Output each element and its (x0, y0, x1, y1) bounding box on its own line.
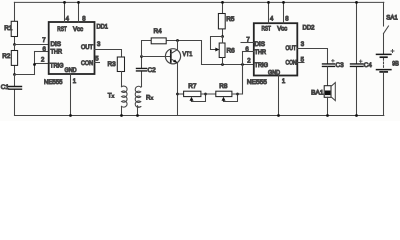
resistor R2 (11, 45, 17, 75)
svg-text:R1: R1 (4, 25, 13, 32)
svg-text:OUT: OUT (81, 45, 93, 51)
wire: top +9V rail (14, 1, 383, 3)
node: winding2 ground (136, 114, 139, 117)
svg-text:R6: R6 (227, 48, 236, 55)
wire: THR-TRIG tie vertical (34, 52, 36, 75)
potentiometer R6 (211, 37, 226, 65)
wire: DD1 pin 1 GND to rail (70, 74, 72, 116)
wire: to DD1 pin 7 DIS (15, 44, 49, 46)
wire: DD1 pin 4 RST to rail (64, 2, 66, 22)
node: R6 bottom junction (221, 63, 224, 66)
svg-text:DD2: DD2 (303, 25, 316, 31)
svg-text:R4: R4 (154, 28, 163, 35)
capacitor C2 (137, 57, 147, 87)
node: DD2 pin1 ground junction (277, 114, 280, 117)
wire: DD1 pin 2 TRIG (35, 63, 49, 65)
node: R2 bottom / C1 junction (13, 73, 16, 76)
resistor R5 (218, 2, 225, 36)
node: pin8 rail junction (77, 1, 80, 4)
svg-text:OUT: OUT (286, 46, 297, 52)
svg-text:RST: RST (57, 27, 67, 33)
svg-text:VT1: VT1 (183, 51, 193, 58)
svg-text:THR: THR (255, 50, 267, 56)
battery GB 9V (377, 34, 395, 116)
transformer T winding 1 (Tx) (122, 86, 128, 115)
potentiometer R8 (216, 91, 238, 101)
node: DD2 pin4 rail junction (267, 1, 270, 4)
node: pin1 ground junction (69, 114, 72, 117)
capacitor C1 (9, 75, 22, 116)
timer IC DD2 NE555 (254, 23, 297, 75)
node: C4 ground junction (355, 114, 358, 117)
svg-text:CON: CON (81, 61, 93, 67)
svg-text:DIS: DIS (255, 42, 266, 48)
resistor R1 (11, 2, 17, 44)
svg-text:R5: R5 (226, 16, 235, 23)
wire: DD1 pin 6 THR (35, 51, 49, 53)
svg-text:TRIG: TRIG (50, 64, 64, 70)
op-amp U1 / timer IC DD1 NE555 (49, 22, 95, 74)
svg-text:9B: 9B (392, 62, 399, 68)
capacitor C4 (351, 2, 364, 115)
svg-text:NE555: NE555 (44, 79, 63, 86)
potentiometer R7 (184, 91, 206, 101)
node: emitter/R7 junction (176, 93, 179, 96)
svg-text:C4: C4 (364, 62, 373, 69)
svg-text:TRIG: TRIG (255, 63, 269, 69)
node: riser/TRIG junction (241, 63, 244, 66)
node: C4 rail junction (355, 1, 358, 4)
svg-text:Vcc: Vcc (73, 27, 83, 33)
node: R8 wiper junction (236, 93, 239, 96)
node: R5/R6 junction (221, 35, 224, 38)
svg-text:DD1: DD1 (97, 25, 109, 31)
svg-text:CON: CON (286, 60, 297, 66)
node: BA1 ground junction (326, 114, 329, 117)
node: winding1 ground (120, 114, 123, 117)
svg-text:R7: R7 (188, 83, 197, 90)
svg-text:C3: C3 (336, 62, 345, 69)
node: pin4 rail junction (63, 1, 66, 4)
wire: DD2 pin 5 CON stub (297, 62, 304, 64)
resistor R4 (142, 38, 202, 65)
svg-text:BA1: BA1 (311, 89, 324, 96)
transformer T winding 2 (Rx) (135, 86, 141, 115)
node: collector/R4 junction (176, 39, 179, 42)
node: DD2 pin8 rail junction (282, 1, 285, 4)
wire: bottom ground rail (15, 115, 384, 117)
wire: TRIG line to DD2 (202, 64, 254, 66)
wire: DD2 pin 3 OUT to C3 (297, 49, 327, 64)
node: R1/R2/DIS junction (13, 43, 16, 46)
wire: DD1 pin 8 Vcc to rail (78, 2, 80, 22)
node: TRIG junction (33, 63, 36, 66)
svg-text:R2: R2 (2, 53, 11, 60)
node: R5 rail junction (221, 1, 224, 4)
svg-text:R8: R8 (219, 83, 228, 90)
svg-text:THR: THR (51, 50, 63, 56)
svg-text:C2: C2 (148, 67, 157, 74)
wire: C3 to speaker (327, 67, 329, 86)
svg-text:DIS: DIS (51, 42, 62, 48)
svg-text:SA1: SA1 (386, 16, 398, 22)
wire: R2 bottom to TRIG riser (15, 74, 35, 76)
transistor VT1 (165, 41, 180, 116)
svg-text:Vcc: Vcc (277, 26, 287, 32)
node: R4/base/C2 junction (140, 55, 143, 58)
wire: emitter to R7 (178, 93, 184, 95)
wire: R7 to R8 (201, 93, 216, 95)
wire: DD2 pin 8 Vcc to rail (283, 2, 285, 23)
svg-text:RST: RST (262, 26, 272, 32)
svg-text:C1: C1 (1, 84, 10, 91)
wire: DD2 THR/TRIG tie riser (242, 52, 244, 95)
node: R7 wiper junction (204, 93, 207, 96)
wire: DD1 pin 5 CON stub (95, 62, 100, 64)
capacitor C3 (323, 60, 335, 67)
wire: base wire to VT1 (142, 56, 171, 58)
switch SA1 (384, 2, 389, 33)
wire: DD2 pin 7 DIS stub (241, 42, 254, 44)
wire: DD2 pin 6 THR (243, 51, 254, 53)
wire: DD2 pin 4 RST to rail (268, 2, 270, 23)
svg-text:GND: GND (65, 68, 78, 74)
svg-text:R3: R3 (108, 61, 117, 68)
speaker BA1 (324, 83, 335, 116)
wire: DD2 pin 1 GND to rail (278, 76, 280, 116)
wire: DD1 pin 3 OUT to R3 (95, 50, 122, 58)
wire: R8 to TRIG riser (232, 65, 243, 95)
svg-text:NE555: NE555 (247, 79, 267, 86)
resistor R3 (117, 57, 124, 87)
